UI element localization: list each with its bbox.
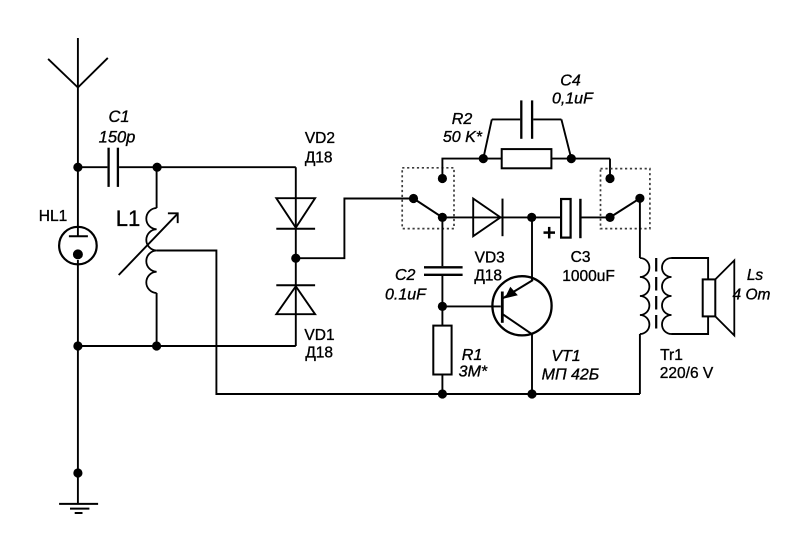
- node collector/rail junction: [527, 389, 536, 398]
- svg-text:МП 42Б: МП 42Б: [542, 367, 600, 384]
- node R1/rail junction: [438, 389, 447, 398]
- svg-text:C2: C2: [395, 267, 416, 284]
- wire switch SA1b to transformer primary: [639, 198, 641, 258]
- wire diode junction to switch SA1a: [296, 199, 414, 259]
- wire switch SA1a to R2: [442, 159, 483, 179]
- ground: [59, 504, 98, 513]
- svg-text:C3: C3: [571, 249, 591, 266]
- transformer Tr1 primary winding: [640, 258, 650, 394]
- node VD3/C3/VT1 junction: [527, 213, 536, 222]
- node R2/C4 right junction: [567, 154, 576, 163]
- node C1/L1 junction: [153, 163, 162, 172]
- svg-text:Ls: Ls: [747, 267, 764, 284]
- wire secondary bottom to speaker: [672, 316, 709, 334]
- wire secondary top to speaker: [672, 258, 709, 279]
- svg-text:VD2: VD2: [305, 130, 335, 147]
- svg-text:L1: L1: [116, 206, 140, 231]
- resistor R1 3M: [433, 306, 488, 394]
- diode VD1 Д18: [276, 285, 334, 361]
- svg-text:HL1: HL1: [39, 208, 67, 225]
- svg-text:0.1uF: 0.1uF: [385, 287, 427, 304]
- svg-text:VT1: VT1: [551, 348, 580, 365]
- capacitor C2 0.1uF: [385, 217, 463, 306]
- wire lamp to ground: [77, 346, 79, 504]
- svg-text:VD1: VD1: [304, 327, 334, 344]
- svg-text:0,1uF: 0,1uF: [552, 91, 594, 108]
- capacitor C1: [78, 108, 157, 187]
- wire R2 to switch SA1b: [609, 159, 611, 179]
- svg-text:VD3: VD3: [475, 250, 505, 267]
- lamp HL1: [39, 167, 97, 346]
- capacitor C4 0.1uF: [483, 73, 594, 159]
- node HL1/rail junction: [73, 341, 82, 350]
- svg-text:50 K*: 50 K*: [443, 129, 483, 146]
- diode VD2 Д18: [276, 130, 335, 229]
- svg-text:Д18: Д18: [474, 268, 502, 285]
- svg-text:3M*: 3M*: [459, 364, 488, 381]
- svg-text:Д18: Д18: [305, 150, 333, 167]
- capacitor C3 1000uF electrolytic: [532, 199, 615, 285]
- transformer Tr1 secondary winding: [660, 258, 714, 382]
- node C2/R1/base junction: [438, 302, 447, 311]
- svg-text:R1: R1: [462, 347, 482, 364]
- svg-text:Tr1: Tr1: [660, 347, 683, 364]
- svg-text:150p: 150p: [99, 129, 136, 147]
- node L1 bottom junction: [152, 341, 161, 350]
- transformer Tr1 core: [655, 258, 657, 334]
- svg-text:Д18: Д18: [305, 345, 333, 362]
- switch SA1a: [409, 174, 447, 222]
- node above ground: [73, 468, 82, 477]
- wire diode chain vertical: [295, 167, 297, 346]
- node VD1/VD2 junction: [291, 254, 300, 263]
- wire bottom-left rail: [78, 345, 296, 347]
- wire L1 tap / bottom rail: [157, 251, 640, 395]
- diode VD3 Д18: [442, 199, 531, 285]
- switch SA1b: [605, 174, 644, 222]
- svg-text:R2: R2: [452, 111, 473, 128]
- svg-text:C1: C1: [108, 108, 129, 126]
- node R2/C4 left junction: [479, 154, 488, 163]
- transistor VT1 МП42Б (PNP): [442, 217, 599, 394]
- wire top rail to VD2: [157, 166, 296, 168]
- svg-text:C4: C4: [560, 73, 581, 90]
- resistor R2 50K: [443, 111, 610, 168]
- speaker Ls 4 Om: [703, 260, 771, 335]
- svg-text:1000uF: 1000uF: [562, 268, 615, 285]
- svg-text:4 Om: 4 Om: [733, 287, 771, 304]
- node antenna/C1/HL1 junction: [73, 163, 82, 172]
- switch SA1b dotted box: [601, 169, 650, 229]
- inductor L1 (variable): [116, 167, 178, 346]
- svg-text:220/6 V: 220/6 V: [660, 365, 714, 382]
- switch SA1a dotted box: [402, 168, 454, 229]
- antenna WA1: [48, 38, 108, 167]
